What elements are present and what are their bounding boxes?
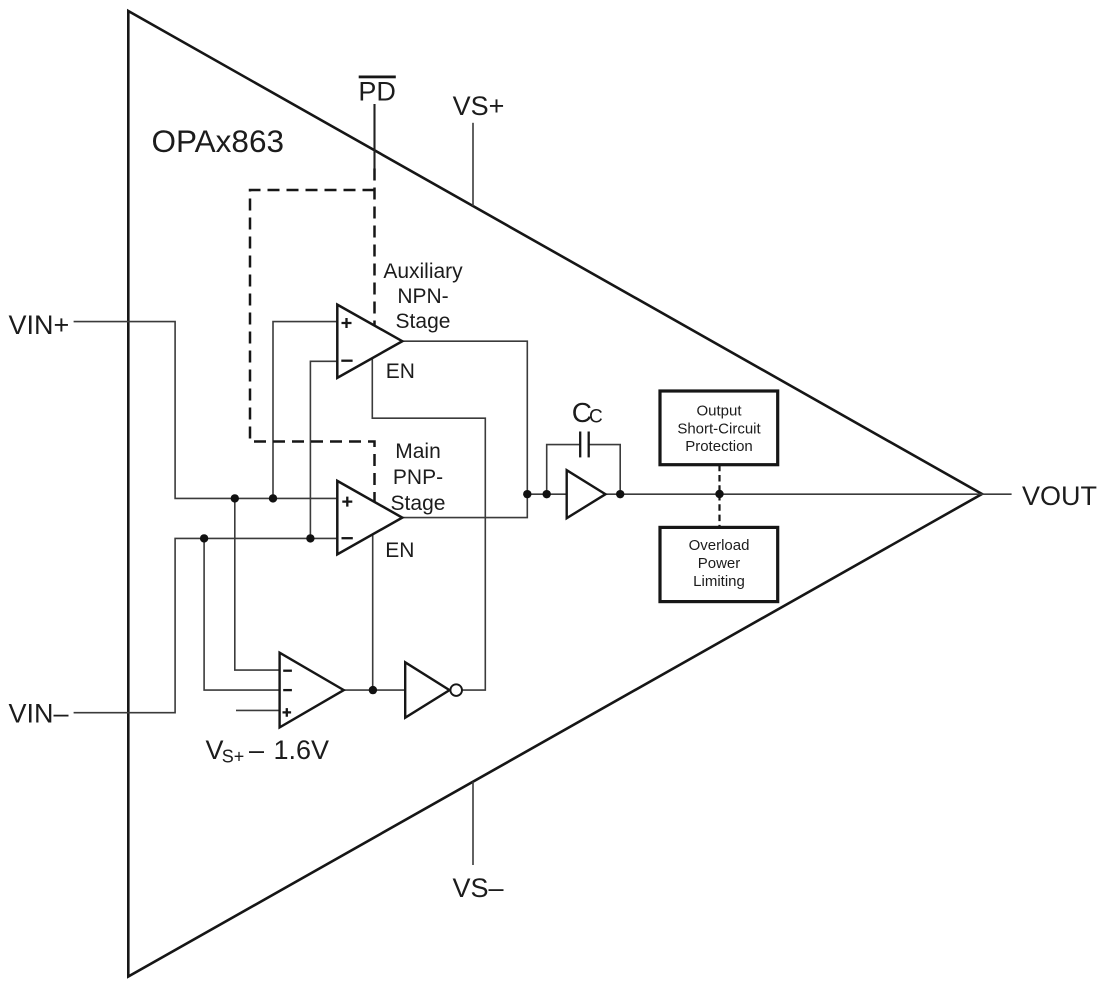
- svg-text:S+: S+: [222, 747, 245, 767]
- svg-text:Overload: Overload: [689, 537, 750, 554]
- svg-text:VIN+: VIN+: [9, 310, 70, 340]
- svg-text:Short-Circuit: Short-Circuit: [677, 421, 761, 438]
- svg-text:C: C: [589, 407, 603, 428]
- svg-text:OPAx863: OPAx863: [152, 123, 285, 159]
- svg-text:VOUT: VOUT: [1022, 481, 1097, 511]
- svg-text:Power: Power: [698, 555, 741, 572]
- svg-text:Stage: Stage: [391, 492, 446, 515]
- svg-text:–: –: [249, 735, 264, 765]
- svg-text:VS–: VS–: [452, 873, 503, 903]
- svg-text:PD: PD: [358, 77, 396, 107]
- svg-text:EN: EN: [385, 539, 414, 562]
- svg-text:PNP-: PNP-: [393, 466, 443, 489]
- svg-text:1.6V: 1.6V: [274, 735, 330, 765]
- svg-text:Limiting: Limiting: [693, 573, 745, 590]
- svg-text:VIN–: VIN–: [9, 699, 69, 729]
- svg-text:Protection: Protection: [685, 438, 753, 455]
- svg-text:NPN-: NPN-: [397, 285, 448, 308]
- svg-text:Stage: Stage: [396, 310, 451, 333]
- svg-text:Main: Main: [395, 440, 441, 463]
- svg-text:EN: EN: [386, 360, 415, 383]
- svg-text:Output: Output: [696, 403, 742, 420]
- svg-text:Auxiliary: Auxiliary: [383, 260, 463, 283]
- svg-text:VS+: VS+: [453, 91, 505, 121]
